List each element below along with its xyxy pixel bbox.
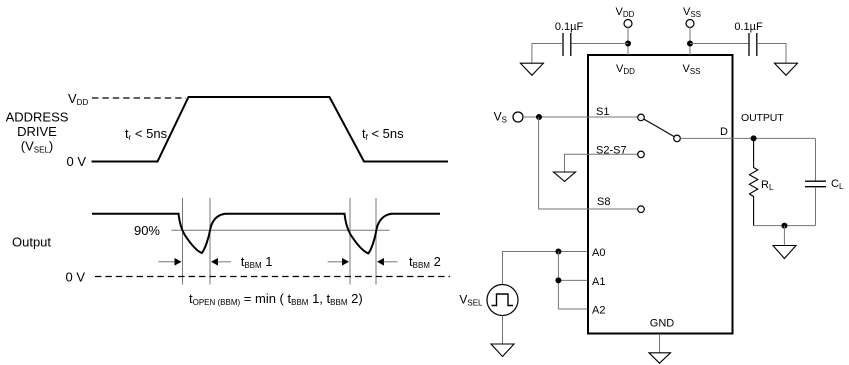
svg-text:A2: A2 [592,305,605,317]
node VSS junction [687,41,693,47]
node output junction [751,135,757,141]
ground S2-S7 [554,172,576,181]
wire GND pin to ground [659,334,661,353]
capacitor C2 [748,33,750,56]
svg-text:VSEL: VSEL [459,293,483,308]
svg-text:S8: S8 [597,196,610,208]
source VSEL pulse generator [487,285,518,316]
wire timing marker vertical line 2 [209,198,211,285]
node load ground junction [781,223,787,229]
svg-text:A0: A0 [592,247,605,259]
node VDD junction [625,41,631,47]
svg-text:0.1µF: 0.1µF [734,21,763,33]
svg-text:(VSEL): (VSEL) [21,139,53,155]
node S1 contact [638,114,645,121]
node S2-S7 contact [638,151,645,158]
ground C2 [775,63,798,75]
ground GND [649,353,671,363]
wire C2 to ground [757,44,786,64]
wire output waveform [92,214,440,254]
wire S2-S7 to ground [565,154,638,172]
svg-text:S1: S1 [596,106,609,118]
node switch pole contact [674,135,681,142]
node VS terminal [513,112,523,122]
svg-text:VS: VS [494,110,507,125]
wire A1 [558,279,587,281]
svg-text:D: D [720,126,728,138]
wire timing marker vertical line 4 [375,198,377,285]
svg-text:tBBM 2: tBBM 2 [409,254,441,270]
svg-text:Output: Output [12,235,51,250]
arrow tBBM2 left [328,261,343,263]
wire D to output [680,137,815,139]
wire VS to S1 [523,116,638,118]
arrow tBBM2 right [377,258,384,266]
svg-text:CL: CL [831,178,844,191]
wire VDD dashed reference line [92,97,186,99]
svg-text:DRIVE: DRIVE [17,124,57,139]
wire C1 to ground [532,44,563,64]
arrow tBBM1 right [211,258,218,266]
wire 0V dashed line lower [95,276,450,278]
svg-text:tOPEN (BBM) = min ( tBBM 1, tB: tOPEN (BBM) = min ( tBBM 1, tBBM 2) [189,291,363,307]
svg-text:RL: RL [761,179,774,192]
wire address drive waveform [92,97,449,162]
ground VSEL [491,344,514,357]
node S8 contact [638,206,645,213]
ground load [773,246,796,259]
wire A2 [558,308,587,310]
svg-text:VDD: VDD [68,91,88,107]
svg-text:VSS: VSS [683,6,701,19]
op-amp U1 multiplexer IC body [588,55,733,334]
wire VDD junction to C1 [571,43,628,45]
wire VSS terminal to IC [689,27,691,55]
svg-text:OUTPUT: OUTPUT [741,112,784,124]
svg-text:0 V: 0 V [66,154,86,169]
wire VS to S8 [539,117,638,209]
capacitor C1 [562,33,564,56]
wire VDD terminal to IC [627,27,629,55]
svg-text:tf < 5ns: tf < 5ns [362,126,404,142]
svg-text:VDD: VDD [616,6,635,19]
wire timing marker vertical line 1 [182,198,184,285]
wire 90% reference line [171,229,389,231]
node A0 junction [555,249,561,255]
wire RL to CL bottom [754,225,816,227]
svg-text:A1: A1 [592,276,605,288]
wire A0 to A1 [557,252,559,310]
wire VSS junction to C2 [690,43,749,45]
node A1 junction [555,277,561,283]
wire timing marker vertical line 3 [349,198,351,285]
svg-text:tBBM 1: tBBM 1 [241,254,273,270]
svg-text:tr < 5ns: tr < 5ns [125,126,168,142]
node VSS terminal [686,20,694,28]
wire VSEL to A0 [503,252,588,285]
svg-text:VDD: VDD [616,63,635,76]
svg-text:GND: GND [650,318,675,330]
ground C1 [520,63,543,75]
wire VSEL to ground [502,316,504,344]
resistor RL [749,138,757,225]
svg-text:0.1µF: 0.1µF [555,21,584,33]
svg-text:ADDRESS: ADDRESS [6,110,69,125]
pulse symbol inside VSEL [492,294,514,306]
svg-text:90%: 90% [134,223,160,238]
svg-text:VSS: VSS [682,63,700,76]
svg-text:0 V: 0 V [65,270,85,285]
arrow tBBM1 left [159,261,176,263]
switch blade S1 to D [644,119,674,137]
node VDD terminal [624,20,632,28]
capacitor CL [815,138,817,181]
wire load junction to ground [783,226,785,245]
node VS junction [536,114,542,120]
